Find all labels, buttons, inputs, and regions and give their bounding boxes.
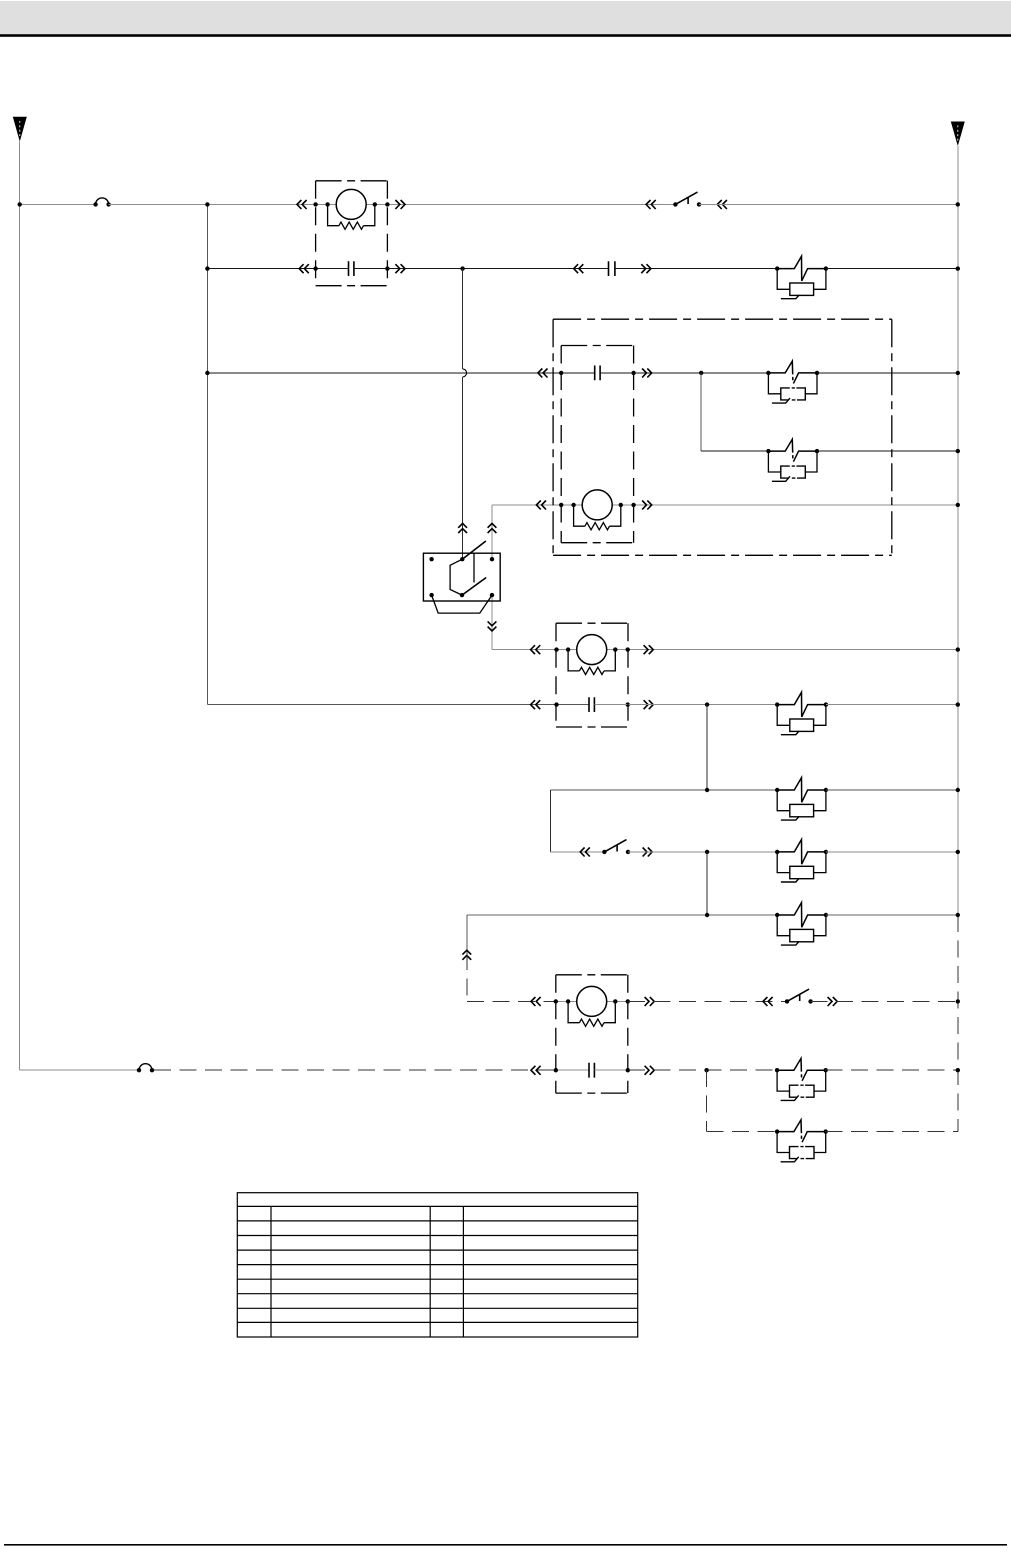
connector chevrons row6 before K3 contact — [531, 700, 541, 709]
connector chevrons row5 after K3 coil — [644, 645, 654, 654]
wire row2 left segment — [207, 268, 348, 270]
junction bus / row2 — [205, 266, 209, 270]
connector chevrons row6 after K3 contact — [644, 700, 654, 709]
relay K4 contact — [589, 1063, 594, 1078]
junction row11 at K4 box right — [626, 1068, 630, 1072]
changeover switch blade (bottom) — [462, 578, 486, 596]
wire row3b to right rail — [817, 450, 958, 452]
changeover pin bottom-left — [429, 593, 433, 597]
junction row9 / right rail — [956, 913, 960, 917]
connector chevrons row2 before inline contact — [574, 264, 584, 273]
wire row8 left segment — [550, 851, 604, 853]
junction row6 / right rail — [956, 702, 960, 706]
connector chevrons row10 before switch S3 — [763, 997, 773, 1006]
circuit breaker CB2a (ganged) — [766, 361, 819, 403]
control module outer enclosure (dash-dot box) — [553, 319, 892, 555]
relay K2 enclosure box — [561, 346, 633, 543]
fuse F2 — [137, 1064, 154, 1073]
junction row3 at K2 box right — [631, 371, 635, 375]
changeover switch fixed contact bar — [473, 553, 475, 582]
wire row7 to right rail — [826, 789, 958, 791]
wire row11 dashed to right rail — [826, 1069, 958, 1071]
left supply rail — [19, 142, 21, 1071]
wire row9 to right rail — [826, 914, 958, 916]
left power feed arrow — [13, 117, 27, 142]
connector chevrons row4 before K2 coil — [536, 501, 546, 510]
wire row3 from bus to K2 contact — [207, 372, 594, 374]
connector chevrons row2 after inline contact — [641, 264, 651, 273]
crossover hop on vertical feed — [463, 369, 467, 377]
relay K1 coil with resistor — [325, 189, 377, 229]
changeover switch strap below — [432, 595, 492, 613]
circuit breaker CB3 — [775, 692, 828, 735]
junction row7 / drop from row6 — [705, 788, 709, 792]
connector chevrons down on row5 feed — [488, 621, 497, 631]
junction row2 / right rail — [956, 266, 960, 270]
junction left rail / row1 — [18, 202, 22, 206]
junction row3 at K2 box left — [559, 371, 563, 375]
connector chevrons row3 before K2 contact — [538, 369, 548, 378]
junction row8 / drop to row9 — [705, 850, 709, 854]
wire row11 dashed to breaker — [628, 1069, 777, 1071]
changeover pin top-mid — [460, 557, 464, 561]
wire row8 right segment — [628, 851, 777, 853]
fuse F1 — [93, 198, 110, 207]
right supply rail (dashed section) — [957, 915, 959, 1132]
circuit breaker CB5 — [775, 840, 828, 883]
changeover pin bottom-right — [490, 593, 494, 597]
relay K4 coil with resistor — [566, 986, 618, 1026]
wire row3 to right rail — [817, 372, 958, 374]
junction row11 / right rail — [956, 1068, 960, 1072]
wire row1 from fuse to switch S1 — [109, 203, 676, 205]
junction row11 / drop to row12 — [704, 1068, 708, 1072]
junction row9 / drop from row8 — [705, 913, 709, 917]
junction row5 at K3 box right — [626, 647, 630, 651]
junction row1 at K1 box left — [313, 202, 317, 206]
changeover pin bottom-mid — [460, 593, 464, 597]
junction bus / row1 — [205, 202, 209, 206]
wire row11 through K4 box right part — [594, 1069, 627, 1071]
junction bus / row3 — [205, 371, 209, 375]
wire row2 right segment — [354, 268, 609, 270]
wire vertical row2 to changeover (lower) — [462, 377, 464, 559]
wire row10 through K4 box — [556, 1000, 628, 1002]
junction row2 at K1 box right — [385, 266, 389, 270]
header rule — [0, 34, 1011, 37]
right supply rail (solid section) — [957, 146, 959, 915]
wire row10 dashed lead — [467, 1000, 556, 1002]
connector chevrons row1 after relay K1 — [395, 200, 405, 209]
junction row5 / right rail — [956, 647, 960, 651]
junction row1 / right rail — [956, 202, 960, 206]
wire row3 from contact to breaker — [600, 372, 768, 374]
wire row9 — [467, 914, 777, 916]
wire row6 to right rail — [826, 704, 958, 706]
wire drop row8 to row9 — [706, 852, 708, 915]
connector chevrons row1 before relay K1 — [297, 200, 307, 209]
connector chevrons row2 after K1 contact — [395, 264, 405, 273]
switch S3 — [785, 989, 813, 1004]
circuit breaker CB7a (ganged) — [775, 1058, 828, 1100]
wire row5 — [492, 649, 958, 651]
junction row3b / right rail — [956, 449, 960, 453]
wire row10 dashed to switch S3 — [628, 1000, 787, 1002]
wire drop row3 to row3b — [700, 373, 702, 451]
junction row6 at K3 box right — [626, 702, 630, 706]
junction row10 / right rail — [956, 999, 960, 1003]
junction row4 / right rail — [956, 503, 960, 507]
wire row7 — [550, 789, 777, 791]
circuit breaker CB2b (ganged) — [766, 439, 819, 481]
junction row1 at K1 box right — [385, 202, 389, 206]
connector chevrons row8 before switch S2 — [580, 848, 590, 857]
junction row6 at K3 box left — [554, 702, 558, 706]
wire row1 left segment — [20, 203, 96, 205]
junction row3 / right rail — [956, 371, 960, 375]
wire row6 left segment — [207, 704, 589, 706]
changeover pin top-left — [429, 557, 433, 561]
footer rule — [4, 1544, 1007, 1546]
relay K3 coil with resistor — [566, 635, 618, 675]
wire row12 dashed to right rail — [826, 1131, 958, 1133]
junction row2 at K1 box left — [313, 266, 317, 270]
wire left drop row7 to row8 — [549, 790, 551, 852]
junction row10 at K4 box left — [554, 999, 558, 1003]
wire row9 drop (dashed part) — [466, 953, 468, 1001]
connector chevrons up on changeover feed — [458, 523, 467, 533]
connector chevrons row1 before switch S1 — [646, 200, 656, 209]
connector chevrons row1 after switch S1 — [717, 200, 727, 209]
relay K4 enclosure box — [556, 975, 628, 1093]
connector chevrons row5 before K3 coil — [531, 645, 541, 654]
junction row8 / right rail — [956, 850, 960, 854]
relay K3 enclosure box — [556, 623, 628, 727]
changeover switch blade (top) — [462, 541, 486, 559]
switch S1 — [673, 192, 701, 206]
wire row1 right segment — [699, 203, 958, 205]
wire row10 dashed to right rail — [811, 1000, 958, 1002]
changeover switch body — [423, 553, 500, 601]
wire drop row6 to row7 — [706, 705, 708, 790]
wire row12 dashed to breaker — [707, 1131, 778, 1133]
connector chevrons row11 before K4 contact — [531, 1066, 541, 1075]
relay K3 contact — [589, 697, 594, 712]
wire row8 to right rail — [826, 851, 958, 853]
connector chevrons row3 after K2 contact — [642, 369, 652, 378]
connector chevrons row11 after K4 contact — [645, 1066, 655, 1075]
wire row9 drop (solid part) — [466, 915, 468, 953]
connector chevrons row10 after K4 coil — [645, 997, 655, 1006]
junction row3 / drop to row3b — [699, 371, 703, 375]
connector chevrons row10 after switch S3 — [828, 997, 838, 1006]
wire vertical row2 to changeover hop (upper) — [462, 269, 464, 369]
right power feed arrow — [951, 122, 965, 147]
inline contact row2 — [609, 261, 615, 276]
connector chevrons row8 after switch S2 — [643, 848, 653, 857]
wire row11 through K4 box left part — [556, 1069, 589, 1071]
junction row11 at K4 box left — [554, 1068, 558, 1072]
junction row10 at K4 box right — [626, 999, 630, 1003]
wire row11 from left rail — [20, 1069, 139, 1071]
wire row6 right segment — [594, 704, 777, 706]
junction row4 at K2 box left — [559, 503, 563, 507]
wire row2 to right rail — [826, 268, 958, 270]
junction row4 at K2 box right — [631, 503, 635, 507]
connector chevrons up on row4 feed — [488, 523, 497, 533]
connector chevrons row10 before K4 coil — [531, 997, 541, 1006]
junction row7 / right rail — [956, 788, 960, 792]
connector chevrons row2 before K1 contact — [299, 264, 309, 273]
relay K1 enclosure box — [316, 181, 388, 286]
changeover switch linkage — [450, 559, 462, 595]
wire changeover bottom-right pin down to row5 — [491, 595, 493, 650]
circuit breaker CB4 — [775, 778, 828, 821]
changeover pin top-right — [490, 557, 494, 561]
relay K1 contact — [349, 261, 354, 276]
wire row11 dashed to K4 contact — [154, 1069, 556, 1071]
circuit breaker CB7b (ganged) — [775, 1120, 828, 1162]
circuit breaker CB6 — [775, 903, 828, 946]
left distribution bus — [206, 204, 208, 704]
junction row6 / drop to row7 — [705, 702, 709, 706]
connector chevrons row4 after K2 coil — [642, 501, 652, 510]
connector chevrons up on row9 drop — [462, 950, 471, 960]
relay K2 contact — [595, 366, 600, 381]
wire drop row11 to row12 (dashed) — [706, 1070, 708, 1131]
junction row2 / vertical to changeover switch — [460, 266, 464, 270]
connector pin table (empty) — [237, 1193, 637, 1337]
wire row4 — [492, 504, 958, 506]
wire changeover top-right pin up to row4 — [491, 505, 493, 559]
switch S2 — [602, 840, 630, 855]
page header grey bar — [0, 1, 1011, 34]
relay K2 coil with resistor — [571, 490, 623, 530]
circuit breaker CB1 — [775, 256, 828, 299]
junction row5 at K3 box left — [554, 647, 558, 651]
